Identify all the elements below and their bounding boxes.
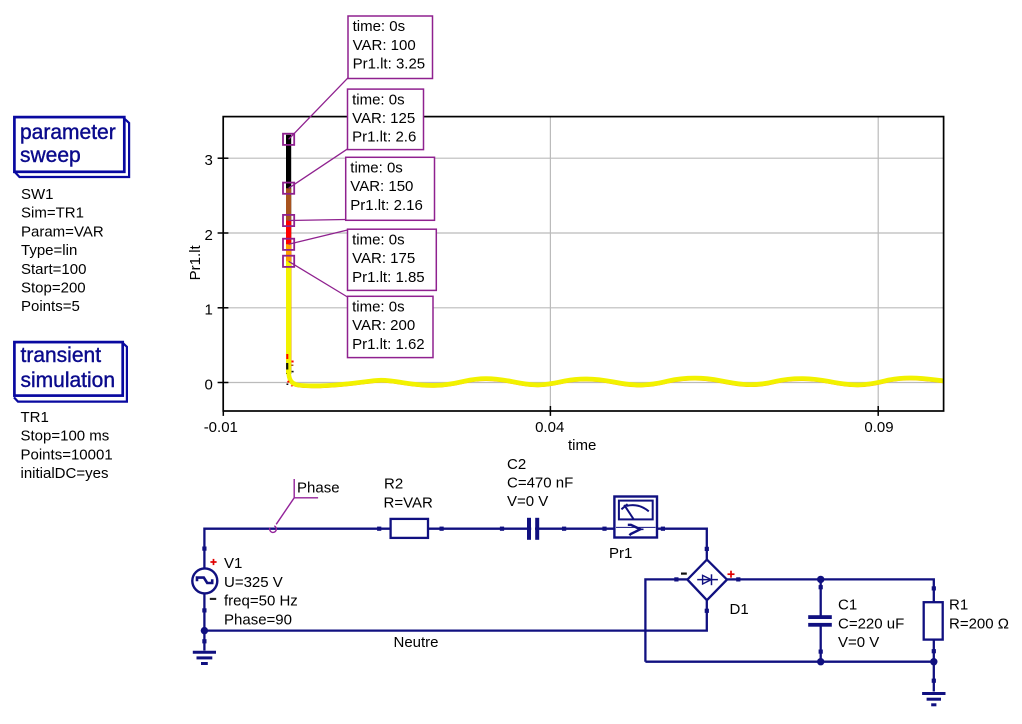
svg-text:C=470 nF: C=470 nF: [507, 475, 573, 492]
marker box 4: [348, 229, 437, 290]
pin V1 minus: [202, 608, 206, 612]
trace VAR=200 (yellow): [289, 261, 944, 386]
capacitor C2: [527, 518, 539, 540]
svg-text:0.09: 0.09: [864, 419, 893, 436]
svg-text:SW1: SW1: [21, 186, 54, 203]
svg-text:V1: V1: [224, 555, 242, 572]
capacitor C1: [808, 615, 832, 627]
marker box 3: [346, 157, 435, 220]
parameter sweep SW1 box: [14, 117, 129, 177]
ground (V1): [193, 652, 216, 663]
TR1 properties: [21, 409, 113, 482]
marker square m1: [283, 134, 294, 145]
pin C2 left: [500, 527, 504, 531]
pin C2 right: [562, 527, 566, 531]
marker square m5: [283, 256, 294, 267]
pin R1 bottom: [932, 649, 936, 653]
V1 plus sign: [210, 559, 216, 565]
svg-text:C=220 uF: C=220 uF: [838, 615, 904, 632]
junction C1 top: [817, 576, 824, 583]
D1 plus sign: [728, 571, 735, 578]
V1 minus sign: [210, 598, 216, 600]
svg-text:Pr1.lt: 1.85: Pr1.lt: 1.85: [352, 269, 425, 286]
svg-text:Stop=100 ms: Stop=100 ms: [21, 428, 110, 445]
svg-text:Sim=TR1: Sim=TR1: [21, 205, 84, 222]
svg-text:R2: R2: [384, 476, 403, 493]
SW1 properties: [21, 186, 104, 315]
pin Pr1 right: [661, 527, 665, 531]
trace VAR=175 (orange): [289, 244, 944, 386]
svg-text:3: 3: [204, 152, 212, 169]
pin ground V1: [202, 639, 206, 643]
svg-text:Start=100: Start=100: [21, 261, 86, 278]
resistor R2: [391, 519, 428, 538]
svg-text:Pr1.lt: 3.25: Pr1.lt: 3.25: [353, 56, 426, 73]
svg-text:initialDC=yes: initialDC=yes: [21, 465, 109, 482]
junction R1 bottom: [930, 658, 937, 665]
svg-text:time: 0s: time: 0s: [352, 231, 405, 248]
svg-text:V=0 V: V=0 V: [507, 493, 548, 510]
svg-text:1: 1: [204, 302, 212, 319]
svg-text:Pr1.lt: 2.16: Pr1.lt: 2.16: [350, 197, 423, 214]
wire neutre: [204, 610, 706, 631]
svg-text:Phase: Phase: [297, 479, 340, 496]
svg-text:VAR: 200: VAR: 200: [352, 317, 415, 334]
svg-text:Param=VAR: Param=VAR: [21, 223, 104, 240]
svg-text:0: 0: [204, 376, 212, 393]
svg-text:Pr1.lt: 2.6: Pr1.lt: 2.6: [352, 129, 416, 146]
pin R1 top: [932, 586, 936, 590]
wire R1 bottom: [933, 640, 935, 662]
svg-text:Points=10001: Points=10001: [21, 446, 113, 463]
pin D1 ac bottom: [705, 609, 709, 613]
svg-text:D1: D1: [730, 601, 749, 618]
wire C1 top: [820, 579, 822, 615]
wire C1 bottom: [820, 627, 822, 662]
svg-text:TR1: TR1: [21, 409, 49, 426]
marker connector lines: [289, 78, 348, 297]
svg-text:sweep: sweep: [20, 144, 81, 167]
svg-text:time: 0s: time: 0s: [350, 160, 403, 177]
marker box 2: [348, 89, 424, 150]
svg-text:Neutre: Neutre: [394, 634, 439, 651]
marker box 1: [348, 16, 433, 79]
wire R1 ground stub: [933, 662, 935, 692]
pin Pr1 left: [602, 527, 606, 531]
wire bottom rail: [645, 661, 933, 663]
svg-text:time: time: [568, 437, 596, 454]
svg-text:simulation: simulation: [21, 369, 116, 392]
svg-text:C1: C1: [838, 597, 857, 614]
svg-text:Points=5: Points=5: [21, 298, 80, 315]
pin D1 minus: [674, 577, 678, 581]
svg-text:time: 0s: time: 0s: [352, 299, 405, 316]
svg-text:2: 2: [204, 227, 212, 244]
svg-text:VAR: 125: VAR: 125: [352, 110, 415, 127]
node label Phase: [270, 479, 340, 532]
svg-text:R=VAR: R=VAR: [384, 495, 433, 512]
svg-text:C2: C2: [507, 456, 526, 473]
svg-text:parameter: parameter: [20, 121, 116, 144]
svg-text:VAR: 150: VAR: 150: [350, 178, 413, 195]
svg-text:Phase=90: Phase=90: [224, 611, 292, 628]
svg-text:-0.01: -0.01: [204, 419, 238, 436]
marker square m4: [283, 239, 294, 250]
svg-text:VAR: 175: VAR: 175: [352, 250, 415, 267]
pin R2 right: [440, 527, 444, 531]
svg-text:transient: transient: [21, 344, 102, 367]
D1 minus sign: [681, 572, 687, 574]
svg-text:freq=50 Hz: freq=50 Hz: [224, 593, 298, 610]
diode bridge D1: [676, 549, 738, 611]
svg-text:time: 0s: time: 0s: [352, 91, 405, 108]
svg-text:U=325 V: U=325 V: [224, 574, 283, 591]
svg-text:Stop=200: Stop=200: [21, 280, 86, 297]
pin C1 top: [819, 585, 823, 589]
pin D1 plus: [736, 577, 740, 581]
svg-text:Pr1: Pr1: [609, 545, 632, 562]
marker square m3: [283, 215, 294, 226]
pin ground R1: [932, 679, 936, 683]
wire bridge left down: [645, 579, 676, 661]
pin R2 left: [377, 527, 381, 531]
voltage source V1: [192, 559, 217, 599]
svg-text:0.04: 0.04: [535, 419, 564, 436]
trace VAR=150 (red): [289, 221, 944, 387]
svg-text:Pr1.lt: 1.62: Pr1.lt: 1.62: [352, 336, 425, 353]
trace VAR=100 (black): [289, 135, 944, 387]
wire top rail Phase: [204, 529, 706, 631]
svg-text:R=200 Ω: R=200 Ω: [949, 615, 1009, 632]
resistor R1: [924, 602, 943, 639]
wire bridge right to R1: [738, 579, 934, 602]
probe Pr1: [614, 497, 657, 538]
pin C1 bottom: [819, 650, 823, 654]
svg-text:time: 0s: time: 0s: [353, 18, 406, 35]
svg-text:Type=lin: Type=lin: [21, 242, 77, 259]
trace VAR=125 (sienna): [286, 188, 291, 372]
marker square m2: [283, 183, 294, 194]
wire V1 ground stub: [203, 631, 205, 651]
ground (R1): [922, 694, 945, 705]
svg-text:VAR: 100: VAR: 100: [353, 37, 416, 54]
marker box 5: [348, 296, 434, 357]
pin D1 ac top: [705, 547, 709, 551]
junction V1 neutre: [201, 627, 208, 634]
residual trace specks near drop bottom: [287, 354, 292, 386]
pin V1 plus: [202, 547, 206, 551]
svg-text:R1: R1: [949, 597, 968, 614]
svg-text:Pr1.lt: Pr1.lt: [187, 244, 204, 280]
junction C1 bottom: [817, 658, 824, 665]
transient simulation TR1 box: [14, 342, 127, 402]
svg-text:V=0 V: V=0 V: [838, 634, 879, 651]
